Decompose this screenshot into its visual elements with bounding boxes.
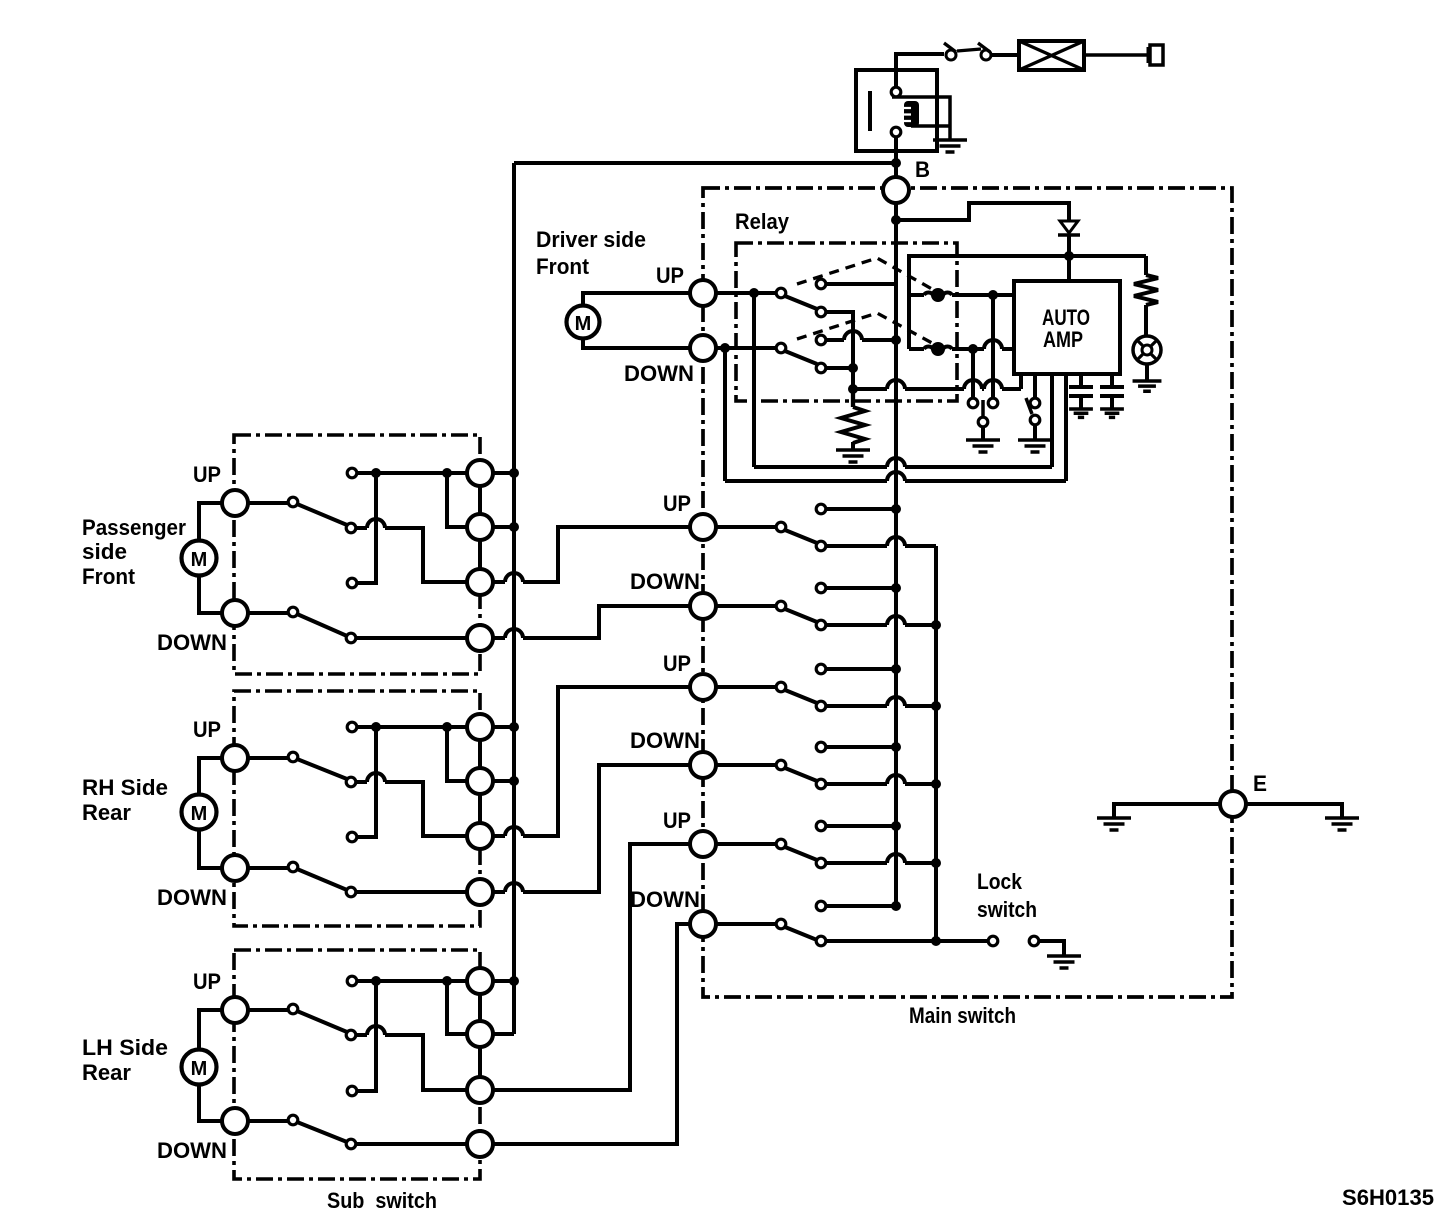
junction collector xyxy=(931,620,941,630)
wire breaker pin1 to ignition switch xyxy=(896,54,944,87)
svg-text:Main switch: Main switch xyxy=(909,1003,1016,1028)
pin circle 4 (RH rear) xyxy=(467,879,493,905)
node UP (LH rear) xyxy=(222,997,248,1023)
junction bus relay xyxy=(891,335,901,345)
wire driver UP node to relay pivot xyxy=(716,291,777,295)
contact lower row 6 xyxy=(816,936,826,946)
wire LH rear pin1 to feed xyxy=(493,979,514,983)
wire LH rear pin3 to main UP node xyxy=(493,844,690,1090)
motor M (RH rear) xyxy=(182,795,217,830)
wire passenger UP arm contact to pin3 xyxy=(355,519,467,582)
wire driver UP node to motor xyxy=(583,293,690,306)
ground (C1) xyxy=(1069,409,1093,417)
AUTO AMP box xyxy=(1014,281,1120,374)
amp ground switch arm xyxy=(1026,398,1032,414)
svg-text:M: M xyxy=(191,1058,208,1080)
svg-text:UP: UP xyxy=(663,491,691,516)
junction driver DOWN / auto-amp sense xyxy=(720,343,730,353)
junction feed pin1 (RH rear) xyxy=(509,722,519,732)
wire left feed vertical xyxy=(512,163,516,1034)
wire passenger pin2 to feed xyxy=(493,525,514,529)
wire breaker coil top to riser xyxy=(892,97,950,139)
relay contact lower (UP) xyxy=(816,307,826,317)
junction passenger b xyxy=(442,468,452,478)
junction RH rear b xyxy=(442,722,452,732)
junction LH rear b xyxy=(442,976,452,986)
svg-text:UP: UP xyxy=(193,969,221,994)
amp ground switch wire xyxy=(1033,374,1037,398)
svg-text:Rear: Rear xyxy=(82,800,131,825)
contact upper row 1 xyxy=(816,504,826,514)
ground (C2) xyxy=(1100,409,1124,417)
wire RH rear pin1 to feed xyxy=(493,725,514,729)
wire LH rear pin2 to feed xyxy=(493,1032,514,1036)
circuit breaker box xyxy=(856,70,937,151)
wire coil UP junction to neutral pin xyxy=(991,295,995,398)
contact upper row 5 xyxy=(816,821,826,831)
ground (amp switch) xyxy=(1018,440,1052,452)
relay switch arm (DOWN) xyxy=(785,351,817,364)
main switch UP row 3 wiring xyxy=(716,669,936,706)
junction resistor column xyxy=(848,363,858,373)
ground (neutral switch) xyxy=(966,440,1000,452)
wire RH rear top contact line xyxy=(356,725,467,729)
pin circle 3 (passenger) xyxy=(467,569,493,595)
junction LH rear a xyxy=(371,976,381,986)
svg-text:DOWN: DOWN xyxy=(624,361,694,386)
junction passenger a xyxy=(371,468,381,478)
junction bus diode branch xyxy=(891,215,901,225)
wire RH rear UP arm contact to pin3 xyxy=(355,773,467,836)
relay neutral pin 1 xyxy=(968,398,978,408)
contact DOWN arm end (LH rear) xyxy=(346,1139,356,1149)
wire driver DOWN node to relay pivot xyxy=(716,346,777,350)
wire passenger pin connector 2-3 xyxy=(478,540,482,569)
wire passenger pin4 to main DOWN node xyxy=(493,606,690,638)
contact pivot row 2 xyxy=(776,601,786,611)
main switch DOWN row 4 wiring xyxy=(716,747,936,784)
node E xyxy=(1220,791,1246,817)
relay contact upper (UP) xyxy=(816,279,826,289)
wire passenger cross link left xyxy=(356,473,376,583)
wire UP sense return (line A) xyxy=(754,293,1052,467)
svg-text:switch: switch xyxy=(977,897,1037,922)
junction collector xyxy=(931,779,941,789)
node DOWN (RH rear) xyxy=(222,855,248,881)
wire resistor to ground xyxy=(851,442,855,449)
wire E node right to ground xyxy=(1246,804,1342,817)
wire relay UP sense line to AUTO AMP xyxy=(853,374,1021,389)
wire passenger top contact line xyxy=(356,471,467,475)
node UP (passenger) xyxy=(222,490,248,516)
node B xyxy=(883,177,909,203)
wire passenger motor to UP node xyxy=(199,503,222,541)
pin circle 1 (passenger) xyxy=(467,460,493,486)
junction driver UP / auto-amp sense xyxy=(749,288,759,298)
lamp (illumination) xyxy=(1133,336,1161,364)
wire collector line x936 xyxy=(934,546,938,941)
breaker pin 1 xyxy=(891,87,901,97)
motor M (driver side front) xyxy=(567,306,600,339)
svg-text:DOWN: DOWN xyxy=(630,569,700,594)
diode xyxy=(1058,221,1080,235)
svg-text:UP: UP xyxy=(193,462,221,487)
relay contact pivot (UP) xyxy=(776,288,786,298)
sub switch box (passenger) xyxy=(234,435,480,674)
capacitor C2 xyxy=(1100,374,1124,408)
wire driver DOWN node to motor xyxy=(583,338,690,348)
contact pivot row 4 xyxy=(776,760,786,770)
relay contact upper (DOWN) xyxy=(816,335,826,345)
contact pivot row 1 xyxy=(776,522,786,532)
wire passenger pin connector 1-2 xyxy=(478,486,482,514)
junction bus row 5 xyxy=(891,821,901,831)
relay coil (UP) xyxy=(909,288,1014,302)
contact UP arm end (LH rear) xyxy=(346,1030,356,1040)
wire LH rear top contact line xyxy=(356,979,467,983)
junction coil UP / neutral pin xyxy=(988,290,998,300)
contact lower row 4 xyxy=(816,779,826,789)
wire DOWN sense return (line B) xyxy=(725,348,1066,481)
wire passenger DOWN arm contact to pin4 xyxy=(355,636,467,640)
wire breaker pin2 down to node B xyxy=(894,137,898,177)
pin circle 3 (RH rear) xyxy=(467,823,493,849)
wire LH rear cross link right xyxy=(447,981,467,1034)
contact pivot row 5 xyxy=(776,839,786,849)
contact stationary mid (RH rear) xyxy=(347,832,357,842)
pin circle 3 (LH rear) xyxy=(467,1077,493,1103)
contact DOWN arm end (RH rear) xyxy=(346,887,356,897)
motor M (LH rear) xyxy=(182,1050,217,1085)
junction bus row 6 xyxy=(891,901,901,911)
label LH Side Rear xyxy=(82,1035,168,1085)
main switch boundary box xyxy=(703,188,1232,997)
resistor R (lamp feed) xyxy=(1134,275,1158,305)
wire diode to AUTO AMP top pin xyxy=(1067,235,1071,281)
pin circle 4 (passenger) xyxy=(467,625,493,651)
wire RH rear pin4 to main DOWN node xyxy=(493,765,690,892)
contact stationary mid (passenger) xyxy=(347,578,357,588)
relay contact lower (DOWN) xyxy=(816,363,826,373)
wire relay DOWN upper contact to bus xyxy=(826,331,896,340)
node driver UP xyxy=(690,280,716,306)
wire passenger cross link right xyxy=(447,473,467,527)
wire coil DOWN junction to neutral pin xyxy=(971,349,975,398)
pin circle 4 (LH rear) xyxy=(467,1131,493,1157)
breaker pin 2 xyxy=(891,127,901,137)
sub switch box (LH rear) xyxy=(234,950,480,1179)
sub switch arm DOWN (LH rear) xyxy=(297,1122,347,1142)
wire neutral switch to ground xyxy=(981,427,985,439)
pin circle 2 (RH rear) xyxy=(467,768,493,794)
wire LH rear UP arm contact to pin3 xyxy=(355,1026,467,1090)
contact upper row 4 xyxy=(816,742,826,752)
wire RH rear pin3 to main UP node xyxy=(493,687,690,836)
node driver DOWN xyxy=(690,335,716,361)
svg-text:AMP: AMP xyxy=(1043,327,1083,352)
amp ground switch lower xyxy=(1030,415,1040,425)
contact stationary top (LH rear) xyxy=(347,976,357,986)
wire relay UP lower contact to resistor column xyxy=(826,312,853,389)
pin circle 2 (LH rear) xyxy=(467,1021,493,1047)
contact pivot DOWN (passenger) xyxy=(288,607,298,617)
lock switch contact 1 xyxy=(988,936,998,946)
wire to diode xyxy=(896,203,1069,221)
junction collector xyxy=(931,701,941,711)
wire LH rear pin connector 2-3 xyxy=(478,1047,482,1077)
svg-text:M: M xyxy=(575,313,592,335)
contact pivot UP (LH rear) xyxy=(288,1004,298,1014)
relay neutral pin 2 xyxy=(988,398,998,408)
relay boundary box xyxy=(736,243,957,401)
sub switch arm UP (LH rear) xyxy=(297,1011,347,1032)
wire RH rear motor to UP node xyxy=(199,758,222,795)
neutral switch arm xyxy=(981,400,985,417)
svg-text:Driver side: Driver side xyxy=(536,227,646,252)
svg-text:Front: Front xyxy=(536,254,590,279)
wire LH rear DOWN node to pivot xyxy=(248,1119,288,1123)
junction RH rear a xyxy=(371,722,381,732)
wire top feed line xyxy=(514,161,896,165)
wire passenger DOWN node to pivot xyxy=(248,611,288,615)
motor M (passenger) xyxy=(182,541,217,576)
contact lower row 1 xyxy=(816,541,826,551)
wire LH rear pin4 to main DOWN node xyxy=(493,924,690,1144)
circuit breaker coil xyxy=(904,101,919,127)
node DOWN row 4 xyxy=(690,752,716,778)
svg-text:RH Side: RH Side xyxy=(82,775,168,800)
main switch DOWN row 6 wiring xyxy=(716,906,988,941)
node UP (RH rear) xyxy=(222,745,248,771)
junction bus row 1 xyxy=(891,504,901,514)
svg-text:M: M xyxy=(191,549,208,571)
wire LH rear motor to DOWN node xyxy=(199,1084,222,1121)
contact lower row 5 xyxy=(816,858,826,868)
circuit breaker element bar xyxy=(868,91,872,131)
contact upper row 3 xyxy=(816,664,826,674)
wire resistor top stub xyxy=(851,389,855,407)
wire LH rear motor to UP node xyxy=(199,1010,222,1050)
relay mechanical linkage (lower, dashed) xyxy=(797,313,932,343)
svg-text:B: B xyxy=(915,157,930,182)
wire LH rear pin connector 1-2 xyxy=(478,994,482,1021)
contact stationary top (RH rear) xyxy=(347,722,357,732)
junction coil DOWN / neutral pin xyxy=(968,344,978,354)
wire RH rear cross link left xyxy=(356,727,376,837)
wire LH rear cross link left xyxy=(356,981,376,1091)
ground (lock switch) xyxy=(1047,956,1081,968)
svg-text:E: E xyxy=(1253,771,1267,796)
contact lower row 2 xyxy=(816,620,826,630)
relay coil (DOWN) xyxy=(909,340,1014,356)
contact pivot row 3 xyxy=(776,682,786,692)
node DOWN row 6 xyxy=(690,911,716,937)
junction feed pin1 (passenger) xyxy=(509,468,519,478)
junction bus row 4 xyxy=(891,742,901,752)
sub switch arm DOWN (RH rear) xyxy=(297,869,347,890)
svg-text:UP: UP xyxy=(193,717,221,742)
svg-text:UP: UP xyxy=(663,808,691,833)
wire resistor to lamp xyxy=(1144,305,1148,336)
wire breaker coil bottom xyxy=(911,124,950,128)
svg-text:DOWN: DOWN xyxy=(157,630,227,655)
wire fuse to battery xyxy=(1084,53,1148,57)
svg-text:Passenger: Passenger xyxy=(82,515,186,540)
wire relay UP upper contact to bus xyxy=(826,282,896,286)
svg-text:Lock: Lock xyxy=(977,869,1023,894)
junction resistor top xyxy=(848,384,858,394)
wire RH rear pin connector 1-2 xyxy=(478,740,482,768)
svg-text:UP: UP xyxy=(663,651,691,676)
wire passenger pin1 to feed xyxy=(493,471,514,475)
junction feed pin2 (RH rear) xyxy=(509,776,519,786)
battery terminal xyxy=(1148,45,1163,65)
ground (breaker) xyxy=(933,140,967,152)
junction feed pin1 (LH rear) xyxy=(509,976,519,986)
label Passenger side Front xyxy=(82,515,186,589)
fuse xyxy=(1019,41,1084,70)
node UP row 5 xyxy=(690,831,716,857)
node UP row 3 xyxy=(690,674,716,700)
svg-text:DOWN: DOWN xyxy=(630,887,700,912)
ground (relay resistor) xyxy=(836,450,870,462)
neutral switch common xyxy=(978,417,988,427)
wire RH rear DOWN node to pivot xyxy=(248,866,288,870)
contact UP arm end (RH rear) xyxy=(346,777,356,787)
main switch DOWN row 2 wiring xyxy=(716,588,936,625)
wire passenger motor to DOWN node xyxy=(199,575,222,613)
contact stationary top (passenger) xyxy=(347,468,357,478)
wire E node left to ground xyxy=(1114,804,1220,817)
lock switch contact 2 xyxy=(1029,936,1039,946)
svg-text:side: side xyxy=(82,539,127,564)
resistor R (relay) xyxy=(841,407,865,443)
pin circle 2 (passenger) xyxy=(467,514,493,540)
svg-text:Front: Front xyxy=(82,564,136,589)
sub switch box (RH rear) xyxy=(234,691,480,926)
contact upper row 6 xyxy=(816,901,826,911)
junction diode/resistor feed xyxy=(1064,251,1074,261)
sub switch arm DOWN (passenger) xyxy=(297,614,347,636)
wire RH rear pin2 to feed xyxy=(493,779,514,783)
wire coil-box left edge and top feed line xyxy=(909,256,1146,349)
contact upper row 2 xyxy=(816,583,826,593)
ground (E left) xyxy=(1097,818,1131,830)
wire resistor feed drop xyxy=(1144,256,1148,275)
ground (E right) xyxy=(1325,818,1359,830)
amp ground switch pin xyxy=(1030,398,1040,408)
junction bus row 3 xyxy=(891,664,901,674)
pin circle 1 (LH rear) xyxy=(467,968,493,994)
junction collector xyxy=(931,858,941,868)
svg-text:LH Side: LH Side xyxy=(82,1035,168,1060)
node DOWN (LH rear) xyxy=(222,1108,248,1134)
svg-text:DOWN: DOWN xyxy=(157,1138,227,1163)
svg-text:DOWN: DOWN xyxy=(630,728,700,753)
svg-text:S6H0135: S6H0135 xyxy=(1342,1185,1434,1210)
wire lamp to ground xyxy=(1145,364,1149,380)
wire relay DOWN lower contact to resistor column xyxy=(826,366,849,370)
contact UP arm end (passenger) xyxy=(346,523,356,533)
wire RH rear DOWN arm contact to pin4 xyxy=(355,890,467,894)
svg-text:Rear: Rear xyxy=(82,1060,131,1085)
wire RH rear cross link right xyxy=(447,727,467,781)
junction bus row 2 xyxy=(891,583,901,593)
node DOWN row 2 xyxy=(690,593,716,619)
contact pivot row 6 xyxy=(776,919,786,929)
wire amp switch to ground xyxy=(1033,425,1037,439)
wire LH rear DOWN arm contact to pin4 xyxy=(355,1142,467,1146)
label Lock switch xyxy=(977,869,1037,922)
capacitor C1 xyxy=(1069,374,1093,408)
node DOWN (passenger) xyxy=(222,600,248,626)
relay contact pivot (DOWN) xyxy=(776,343,786,353)
node UP row 1 xyxy=(690,514,716,540)
relay mechanical linkage (upper, dashed) xyxy=(797,258,932,289)
svg-text:Relay: Relay xyxy=(735,209,790,234)
wire passenger UP node to pivot xyxy=(248,501,288,505)
junction feed pin2 (passenger) xyxy=(509,522,519,532)
contact DOWN arm end (passenger) xyxy=(346,633,356,643)
svg-text:UP: UP xyxy=(656,263,684,288)
label RH Side Rear xyxy=(82,775,168,825)
label AUTO AMP xyxy=(1042,305,1090,352)
ignition switch xyxy=(944,43,991,60)
wire LH rear UP node to pivot xyxy=(248,1008,288,1012)
relay switch arm (UP) xyxy=(785,296,817,309)
contact pivot DOWN (RH rear) xyxy=(288,862,298,872)
wire RH rear UP node to pivot xyxy=(248,756,288,760)
junction collector lock row xyxy=(931,936,941,946)
svg-text:DOWN: DOWN xyxy=(157,885,227,910)
label Driver side Front xyxy=(536,227,646,279)
pin circle 1 (RH rear) xyxy=(467,714,493,740)
main switch UP row 1 wiring xyxy=(716,509,936,546)
wire ignition switch to fuse xyxy=(991,53,1019,57)
contact pivot UP (passenger) xyxy=(288,497,298,507)
svg-text:Sub switch: Sub switch xyxy=(327,1188,437,1213)
main switch UP row 5 wiring xyxy=(716,826,936,863)
wire lock switch to ground xyxy=(1039,941,1064,955)
sub switch arm UP (passenger) xyxy=(297,504,347,525)
ground (lamp) xyxy=(1133,381,1162,391)
contact pivot UP (RH rear) xyxy=(288,752,298,762)
contact pivot DOWN (LH rear) xyxy=(288,1115,298,1125)
contact stationary mid (LH rear) xyxy=(347,1086,357,1096)
sub switch arm UP (RH rear) xyxy=(297,759,347,779)
wire RH rear pin connector 2-3 xyxy=(478,794,482,823)
junction breaker/top feed xyxy=(891,158,901,168)
wire bus from B down main switch xyxy=(894,203,898,906)
wire passenger pin3 to main UP node xyxy=(493,527,690,582)
wire RH rear motor to DOWN node xyxy=(199,829,222,868)
contact lower row 3 xyxy=(816,701,826,711)
svg-text:M: M xyxy=(191,803,208,825)
